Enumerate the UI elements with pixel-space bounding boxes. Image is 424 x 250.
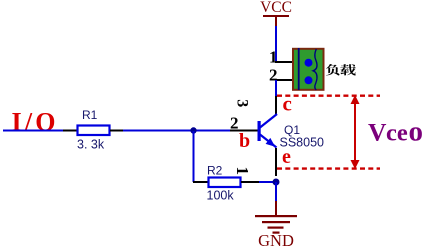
svg-text:c: c [283, 92, 292, 116]
svg-text:100k: 100k [207, 189, 235, 203]
svg-text:R1: R1 [82, 108, 98, 122]
svg-text:Vceo: Vceo [368, 116, 423, 148]
label 负载 (load) [326, 64, 356, 76]
svg-text:b: b [239, 130, 250, 152]
wire R1 to base [123, 130, 230, 132]
resistor R1 pin 2 [110, 130, 123, 132]
dashed line e level [277, 167, 380, 169]
wire pin2 to collector [275, 80, 277, 96]
transistor emitter pin [275, 148, 277, 176]
transistor base pin [230, 130, 258, 132]
svg-text:3. 3k: 3. 3k [77, 138, 105, 152]
wire I/O to R1 [3, 130, 63, 132]
svg-text:1: 1 [233, 167, 252, 176]
junction node at base branch [190, 127, 196, 133]
wire branch down to R2 [193, 131, 195, 182]
wire emitter node down [275, 182, 277, 201]
dashed line c level [277, 94, 380, 96]
transistor Q1 symbol [258, 114, 278, 148]
wire R2 to emitter node [259, 181, 276, 183]
svg-text:VCC: VCC [260, 0, 292, 16]
junction node at emitter [273, 179, 280, 186]
resistor R1 body [78, 126, 110, 136]
svg-text:3: 3 [233, 99, 250, 107]
svg-text:I/O: I/O [12, 108, 59, 137]
svg-text:1: 1 [269, 48, 278, 67]
power port VCC [260, 0, 292, 27]
connector J pin 2 [275, 79, 292, 81]
measurement arrow Vceo [351, 95, 360, 169]
transistor Q1 collector pin [275, 96, 277, 115]
connector J pin 1 [275, 61, 292, 63]
power port GND [255, 201, 297, 250]
svg-text:GND: GND [258, 231, 294, 250]
resistor R2 body [209, 178, 241, 188]
connector J body (terminal block) [293, 48, 324, 90]
resistor R2 pin 1 [241, 181, 259, 183]
resistor R1 pin 1 [63, 130, 77, 132]
wire VCC to connector pin 1 [275, 26, 277, 63]
svg-text:R2: R2 [207, 164, 223, 178]
svg-text:e: e [282, 146, 291, 168]
resistor R2 pin 2 [193, 181, 208, 183]
